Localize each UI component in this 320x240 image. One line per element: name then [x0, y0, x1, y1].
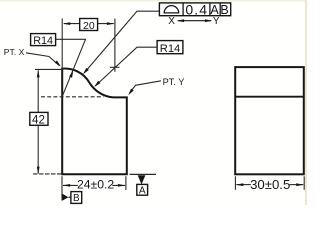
extension line down to arc center + (for 20 dim)	[114, 19, 116, 72]
side view edge line of curved surface	[235, 96, 304, 98]
datum B leader stub	[68, 196, 71, 198]
arrowhead right of 30	[296, 183, 304, 186]
part outline with S-curve profile	[62, 68, 127, 174]
side view rectangle	[235, 67, 304, 174]
arrowhead right of 20	[107, 22, 115, 25]
svg-text:A: A	[139, 185, 146, 196]
extension line above PT.X corner (for 20 dim)	[61, 19, 63, 69]
PT. X leader	[26, 53, 60, 66]
svg-text:PT. X: PT. X	[4, 47, 25, 57]
boxed label 20	[80, 19, 98, 31]
arrowhead left of 24	[63, 184, 71, 187]
svg-text:Y: Y	[213, 16, 220, 27]
extension line left for 24 dim, continues for datum B	[61, 176, 63, 200]
dimension 42 vertical line	[37, 70, 39, 173]
feature control frame leader	[84, 11, 159, 73]
extension lines for 30±0.5	[234, 176, 236, 190]
PT. Y arrowhead	[128, 89, 134, 96]
arrowhead left of 20	[63, 22, 70, 25]
svg-text:42: 42	[32, 114, 45, 127]
extension line right for 24 dim	[125, 176, 127, 190]
extension line for top of 42 dim	[35, 68, 61, 70]
extension line right of bottom edge (datum A attach)	[130, 173, 157, 175]
page top border line	[0, 0, 307, 2]
dimension line 30±0.5	[236, 184, 251, 186]
svg-text:PT. Y: PT. Y	[163, 77, 185, 87]
R14 label box (concave arc)	[157, 41, 183, 54]
datum A triangle	[138, 175, 146, 184]
svg-text:A: A	[210, 3, 219, 17]
svg-text:30±0.5: 30±0.5	[250, 177, 290, 192]
arrowhead right of 24	[118, 184, 126, 187]
arrowhead bottom of 42	[37, 167, 40, 175]
svg-text:R14: R14	[33, 35, 53, 47]
R14 convex leader: horizontal then radial toward arc center	[56, 39, 86, 96]
svg-text:B: B	[73, 193, 80, 204]
dimension 20 line	[64, 23, 114, 25]
svg-text:R14: R14	[160, 43, 181, 55]
phantom dashed line at tangent level	[41, 96, 104, 98]
svg-text:20: 20	[83, 20, 95, 32]
svg-text:0.4: 0.4	[185, 2, 208, 18]
R14 concave leader through + center	[95, 47, 157, 86]
svg-text:B: B	[220, 3, 228, 17]
R14 label box (convex arc)	[31, 34, 56, 46]
PT. X arrowhead	[55, 60, 61, 66]
arrowhead left of 30	[236, 183, 244, 186]
R14 convex arrowhead on radial line	[69, 71, 73, 78]
svg-text:X: X	[168, 16, 175, 27]
datum A box	[137, 184, 148, 195]
svg-text:24±0.2: 24±0.2	[77, 178, 114, 192]
dimension line 24±0.2	[63, 184, 125, 186]
between X and Y annotation	[168, 16, 220, 27]
arrowhead top of 42	[37, 70, 40, 78]
PT. Y leader	[130, 81, 162, 93]
boxed label 42	[30, 112, 48, 125]
R14 concave arrowhead	[94, 81, 100, 87]
profile of a surface symbol	[164, 6, 179, 13]
datum B box	[71, 192, 82, 204]
label 24±0.2	[78, 179, 113, 190]
center mark + horizontal arm	[110, 66, 120, 68]
dashed extension of bottom edge to the left	[33, 173, 61, 175]
feature control frame	[159, 2, 230, 18]
datum B triangle	[62, 194, 68, 201]
page right border line	[305, 0, 307, 205]
feature control frame leader arrowhead	[83, 68, 89, 74]
